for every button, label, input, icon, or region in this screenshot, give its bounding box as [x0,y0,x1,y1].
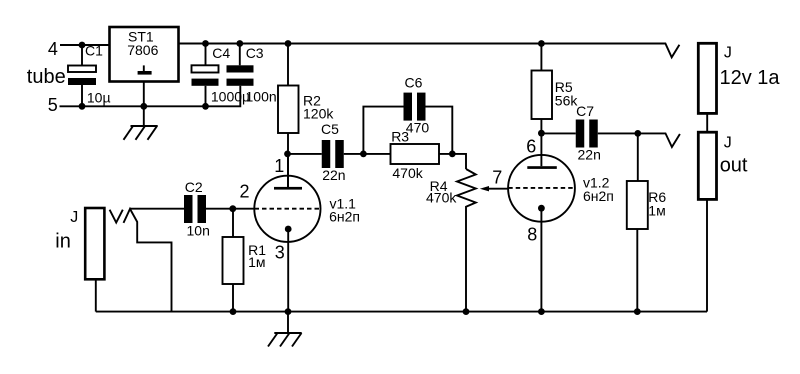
svg-text:10n: 10n [187,223,210,239]
svg-text:R3: R3 [391,129,409,145]
svg-text:1000µ: 1000µ [211,89,250,105]
svg-text:7: 7 [492,168,502,188]
svg-text:120k: 120k [303,106,334,122]
svg-text:6: 6 [526,136,536,156]
svg-text:7806: 7806 [127,42,158,58]
svg-text:22n: 22n [322,167,345,183]
svg-text:C4: C4 [212,45,230,61]
svg-text:6н2п: 6н2п [329,209,360,225]
svg-text:out: out [720,154,748,176]
svg-text:C2: C2 [185,179,203,195]
svg-text:56k: 56k [555,92,579,108]
svg-text:100n: 100n [246,89,277,105]
svg-text:1: 1 [274,156,284,176]
svg-text:470k: 470k [392,165,423,181]
svg-text:C5: C5 [321,121,339,137]
svg-text:J: J [70,209,78,226]
svg-text:C3: C3 [246,45,264,61]
svg-text:in: in [55,231,71,253]
svg-text:C1: C1 [85,42,103,58]
svg-text:2: 2 [240,182,250,202]
svg-text:3: 3 [275,242,285,262]
svg-text:J: J [724,134,732,151]
svg-text:1м: 1м [248,254,265,270]
svg-text:6н2п: 6н2п [583,188,614,204]
svg-text:8: 8 [527,225,537,245]
svg-text:470: 470 [406,119,430,135]
svg-text:5: 5 [48,95,58,115]
svg-text:J: J [724,45,732,62]
svg-text:12v 1a: 12v 1a [720,67,781,89]
svg-text:C6: C6 [405,75,423,91]
svg-text:tube: tube [27,66,66,88]
svg-text:22n: 22n [578,147,601,163]
svg-text:4: 4 [48,39,58,59]
svg-text:10µ: 10µ [87,89,111,105]
svg-text:C7: C7 [576,103,594,119]
svg-text:470k: 470k [426,190,457,206]
svg-text:1м: 1м [648,202,665,218]
